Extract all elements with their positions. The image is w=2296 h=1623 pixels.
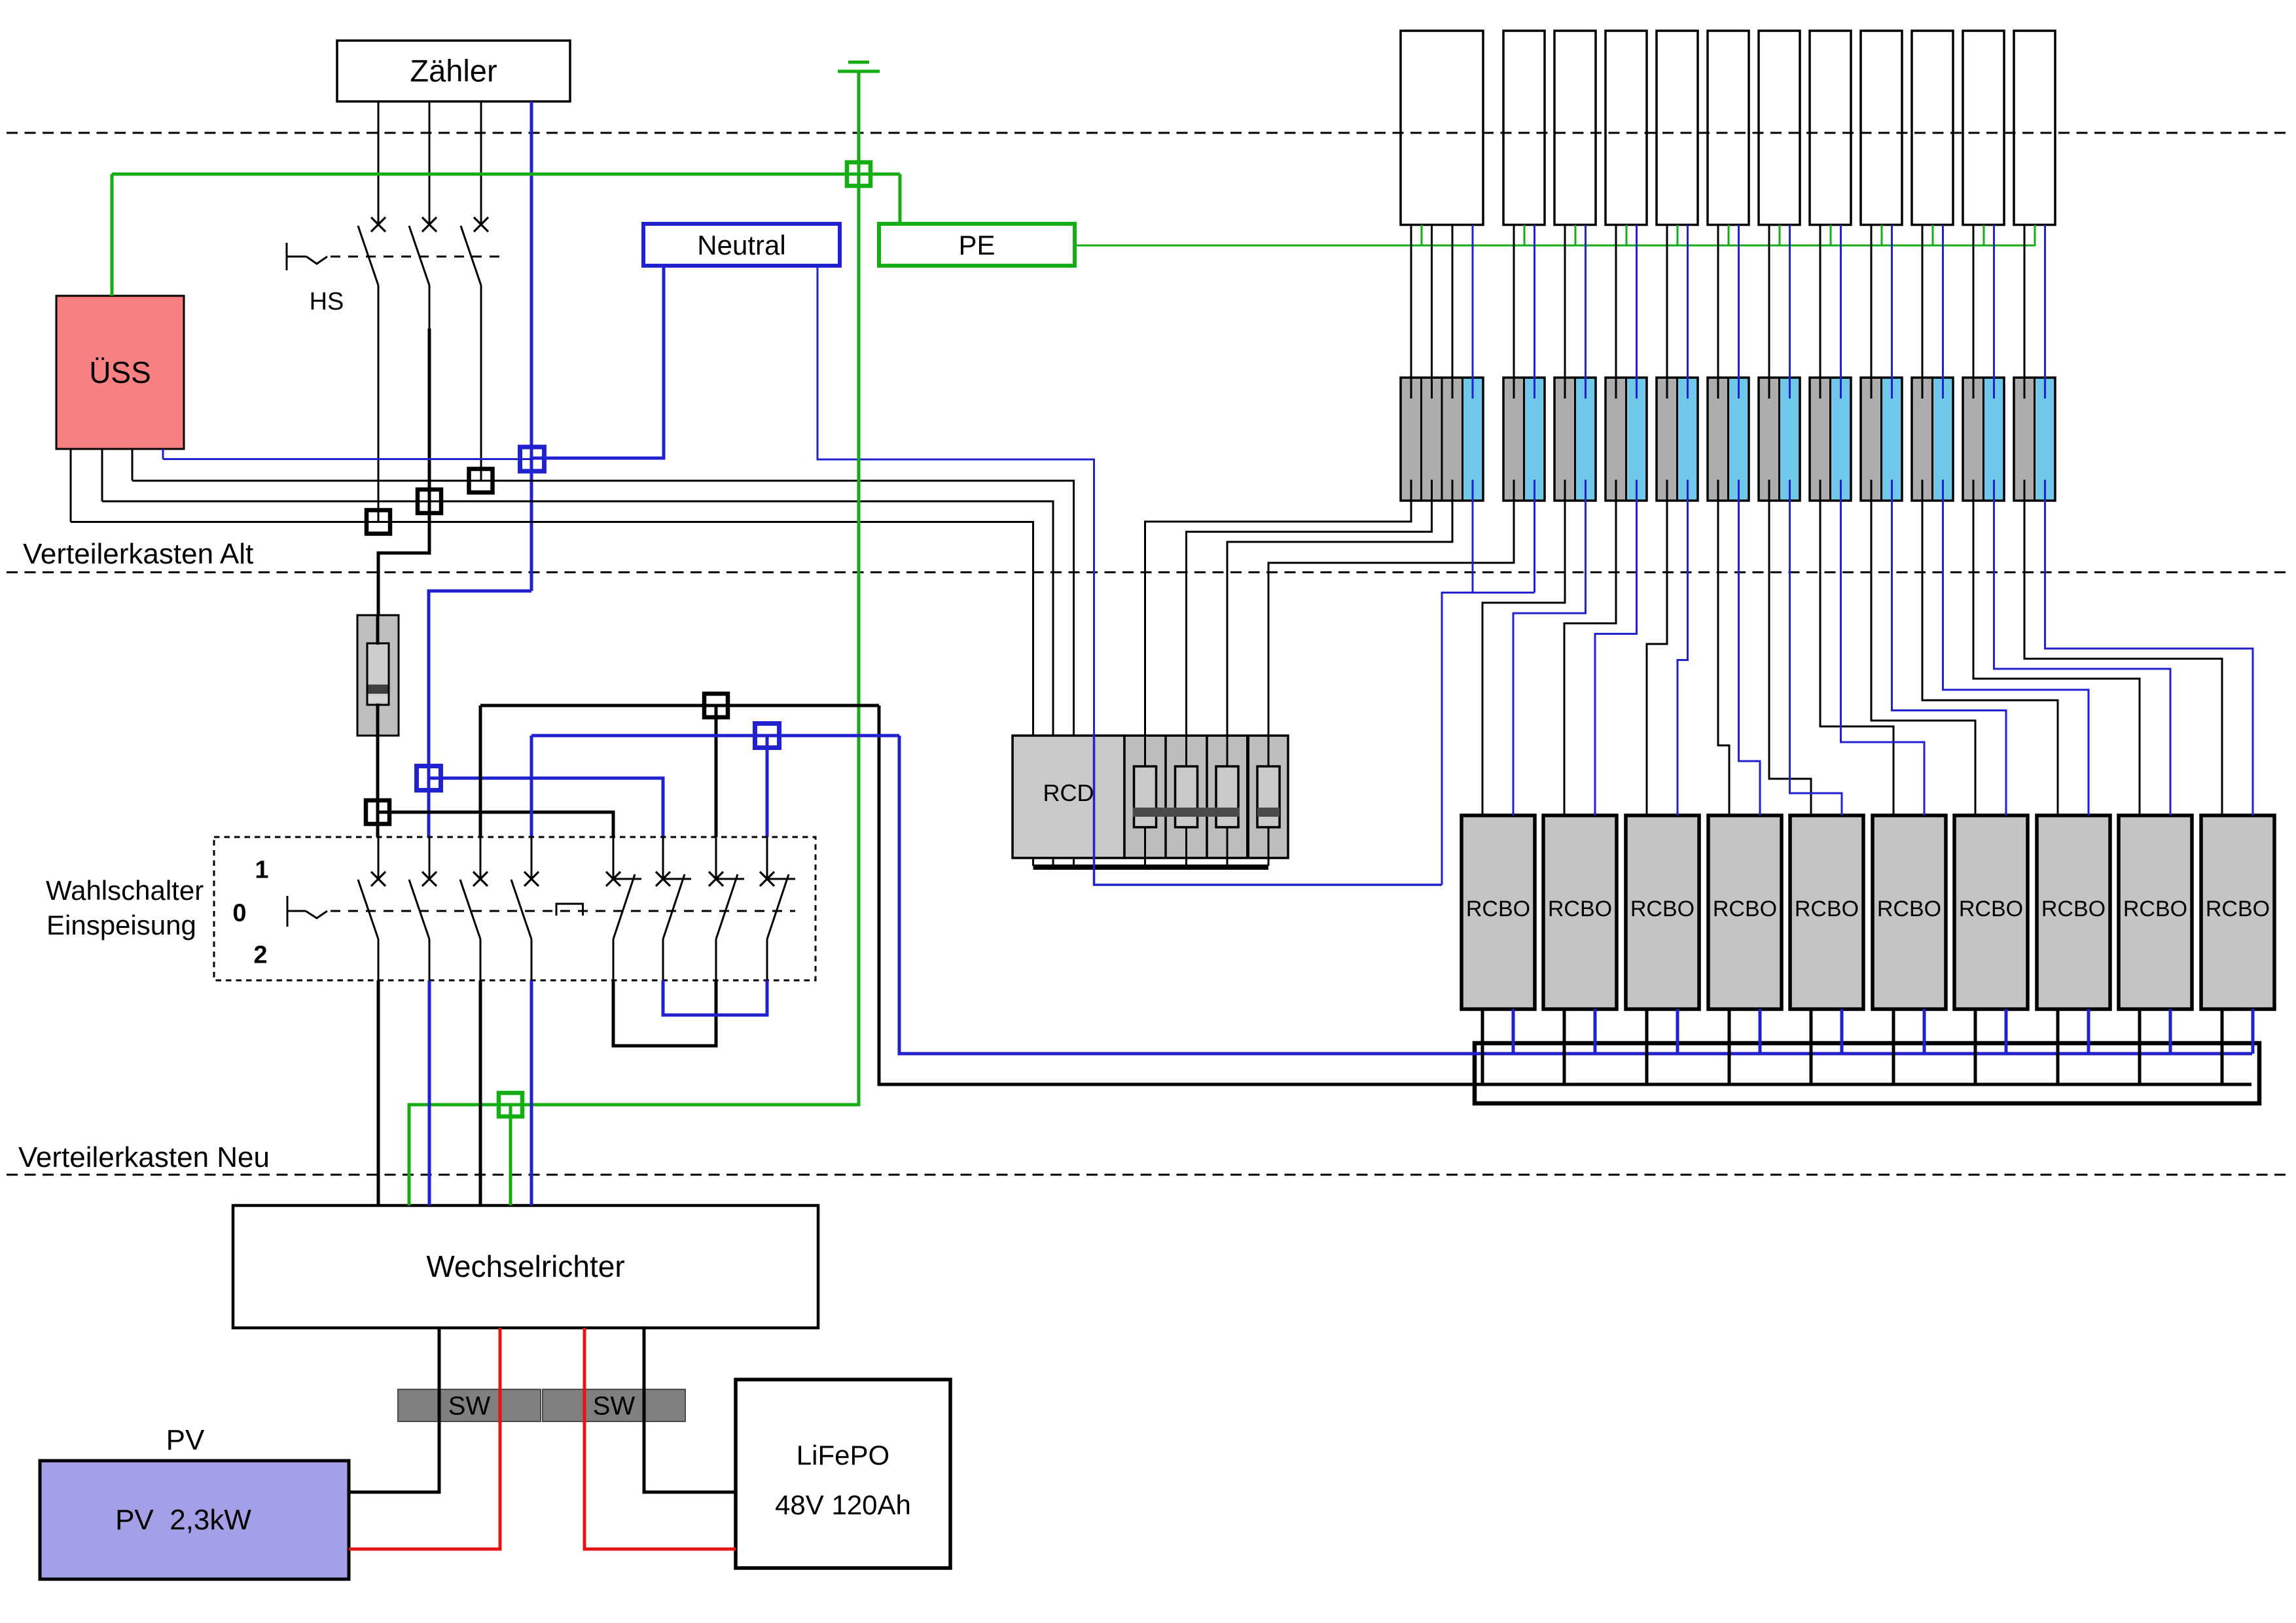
circuit1 L pins upper [1411, 225, 1452, 399]
boundary dashed line Verteilerkasten Alt [7, 571, 2289, 573]
svg-text:Wechselrichter: Wechselrichter [426, 1249, 624, 1283]
boundary dashed line Verteilerkasten Neu [7, 1174, 2289, 1176]
RCD bottom terminal bar [1033, 865, 1269, 870]
wire module9 L to RCBO7 [1871, 480, 1975, 815]
svg-text:Verteilerkasten Alt: Verteilerkasten Alt [23, 538, 253, 570]
wire PE branch to inverter [509, 1105, 512, 1205]
wire module4 N to RCBO2 [1595, 480, 1637, 815]
selector pole 4 [511, 837, 539, 980]
RCBO L pins to L bus [1482, 1009, 2222, 1086]
breaker module 2 [1503, 378, 1545, 501]
node PE inverter junction [499, 1093, 522, 1116]
wire ÜSS neutral link [163, 458, 532, 460]
svg-text:1: 1 [255, 857, 268, 884]
svg-text:0: 0 [232, 900, 246, 927]
node L branch to pole 5 junction [366, 800, 389, 824]
circuit1 PE stub [1421, 225, 1423, 246]
switch SW1 box [398, 1389, 541, 1421]
PV array box [40, 1461, 349, 1579]
svg-text:2: 2 [253, 942, 267, 969]
selector mechanical link dashed [331, 910, 795, 912]
breaker module 11 [1963, 378, 2004, 501]
wire selector pole1 to inverter [377, 980, 380, 1205]
wire L house bus drop to pole 7 [715, 705, 718, 837]
terminal strip frame around N and L buses [1475, 1043, 2259, 1103]
wire PE bus to circuits [1075, 245, 2036, 247]
svg-text:RCBO: RCBO [1713, 897, 1777, 921]
wire ÜSS pin N drop [162, 449, 164, 459]
wire module1 L1 to RCD module1 [1145, 480, 1412, 736]
svg-text:RCBO: RCBO [1959, 897, 2023, 921]
svg-text:Wahlschalter: Wahlschalter [46, 875, 204, 906]
inverter box Wechselrichter [233, 1205, 818, 1328]
wire RCD N collector [1442, 593, 1535, 885]
node L bus to pole 7 junction [704, 694, 728, 717]
load cable box 10 [1912, 31, 1953, 225]
svg-text:RCBO: RCBO [1630, 897, 1695, 921]
node N junction at ÜSS link [520, 447, 545, 471]
RCBO 2 [1543, 815, 1617, 1009]
svg-text:48V 120Ah: 48V 120Ah [775, 1489, 911, 1520]
node L2-line B junction [418, 490, 441, 513]
svg-text:HS: HS [310, 288, 344, 315]
wire U-link poles 6-8 [663, 980, 767, 1015]
wire module12 N to RCBO10 [2045, 480, 2253, 815]
svg-text:SW: SW [593, 1392, 636, 1421]
wire module11 N to RCBO9 [1994, 480, 2171, 815]
load cable box 9 [1861, 31, 1902, 225]
wire neutral bar left pin [532, 266, 664, 458]
node N branch to pole 6 junction [417, 766, 441, 791]
svg-text:RCD: RCD [1043, 779, 1094, 806]
wire HS pole2 output bold to breaker [378, 329, 429, 615]
breaker module 10 [1912, 378, 1953, 501]
load cable box 7 [1759, 31, 1800, 225]
circuit PE stubs 2-12 [1524, 225, 2035, 246]
wire L house bus horizontal [480, 704, 879, 707]
main breaker F1 body [357, 615, 399, 736]
circuit pins upper 2-12 [1514, 225, 2024, 399]
wire module1 N drop [1472, 480, 1474, 593]
wire N house bus drop to pole 4 [530, 736, 533, 837]
svg-text:SW: SW [448, 1392, 491, 1421]
neutral bar box [643, 224, 840, 266]
wire module8 L to RCBO6 [1820, 480, 1893, 815]
selector pole 8 [760, 837, 795, 980]
circuit N pins upper 2-12 [1535, 225, 2045, 399]
wire ÜSS pin L1 drop [70, 449, 72, 522]
svg-text:RCBO: RCBO [2041, 897, 2106, 921]
wire L1 meter drop [378, 101, 380, 224]
breaker module 4 [1605, 378, 1647, 501]
wire breaker stub bottom [376, 704, 380, 736]
wire module1 L3 to RCD module3 [1227, 480, 1452, 736]
wire module12 L to RCBO10 [2024, 480, 2222, 815]
RCBO 4 [1708, 815, 1782, 1009]
selector pole 2 [409, 837, 437, 980]
wire phase line A to RCD [132, 481, 1074, 736]
wire N house bus down right [899, 736, 2252, 1054]
wire selector pole2 to inverter [428, 980, 431, 1205]
main switch HS pole 1 contact [358, 217, 386, 285]
svg-text:Zähler: Zähler [410, 54, 497, 88]
selector pole 6 [656, 837, 691, 980]
switch SW2 box [543, 1389, 685, 1421]
svg-text:ÜSS: ÜSS [89, 355, 151, 389]
wire PE long vertical to inverter [409, 174, 859, 1205]
wire HS pole2 output thin [429, 285, 431, 330]
breaker module 8 [1810, 378, 1851, 501]
breaker module 5 [1657, 378, 1698, 501]
wire L2 meter drop [429, 101, 431, 224]
wire module7 L to RCBO5 [1769, 480, 1811, 815]
node L1-line C junction [367, 510, 390, 534]
meter box Zähler [337, 41, 570, 101]
svg-text:RCBO: RCBO [1548, 897, 1612, 921]
RCBO 7 [1954, 815, 2028, 1009]
load cable box 5 [1657, 31, 1698, 225]
main switch HS actuator terminal [287, 243, 327, 270]
wire breaker stub top [376, 615, 380, 645]
wire module9 N to RCBO7 [1892, 480, 2007, 815]
wire module10 L to RCBO8 [1922, 480, 2058, 815]
selector pole 3 [460, 837, 488, 980]
wire N house bus horizontal [531, 734, 899, 738]
load cable box 11 [1963, 31, 2004, 225]
wire U-link poles 5-7 [613, 980, 716, 1046]
wire N meter drop (bold) [530, 101, 533, 591]
RCBO N pins to N bus [1513, 1009, 2253, 1054]
wire module2 N drop [1534, 480, 1535, 593]
load cable box 12 [2014, 31, 2055, 225]
RCBO 1 [1462, 815, 1535, 1009]
wire battery minus black [644, 1328, 736, 1492]
load cable box 1 [1401, 31, 1483, 225]
selector dashed box [214, 837, 816, 980]
RCBO 3 [1626, 815, 1699, 1009]
node N bus to pole 8 junction [755, 724, 780, 748]
PE bar box [879, 224, 1075, 266]
wire green service entry to ÜSS [111, 174, 114, 296]
selector mechanical link bridge [556, 904, 583, 916]
wire module4 L to RCBO2 [1564, 480, 1616, 815]
wire module11 L to RCBO9 [1973, 480, 2140, 815]
wire breaker output to selector pole 1 [376, 736, 380, 837]
selector actuator terminal [287, 896, 327, 927]
wire module6 L to RCBO4 [1718, 480, 1729, 815]
wire HS pole3 output to line A [480, 285, 482, 481]
selector pole 1 [358, 837, 386, 980]
svg-text:Einspeisung: Einspeisung [46, 910, 196, 940]
wire HS pole1 output to line C [378, 285, 380, 522]
wire module5 N to RCBO3 [1677, 480, 1688, 815]
battery LiFePO box [736, 1380, 950, 1568]
RCD neutral line through body [1093, 736, 1096, 858]
boundary dashed line top (grid side) [7, 132, 2289, 134]
wire RCD neutral output to circuits [1094, 858, 1443, 885]
wire ÜSS pin L2 drop [101, 449, 103, 501]
wire battery plus red [584, 1328, 736, 1549]
wire L house bus drop to pole 3 [479, 705, 482, 837]
wire N jog to selector [429, 591, 531, 778]
wire module3 N to RCBO1 [1513, 480, 1586, 815]
wire module5 L to RCBO3 [1647, 480, 1667, 815]
wire L3 meter drop [480, 101, 482, 224]
wire N feed selector pole 2 [427, 778, 431, 837]
svg-text:Verteilerkasten Neu: Verteilerkasten Neu [18, 1141, 270, 1173]
wire module1 L2 to RCD module2 [1187, 480, 1432, 736]
surge protector ÜSS [56, 296, 184, 449]
main switch HS pole 2 contact [409, 217, 437, 285]
breaker module 9 [1861, 378, 1902, 501]
RCBO 9 [2119, 815, 2192, 1009]
node PE top junction [847, 162, 870, 186]
svg-text:RCBO: RCBO [1877, 897, 1941, 921]
wire module8 N to RCBO6 [1841, 480, 1925, 815]
breaker module 12 [2014, 378, 2055, 501]
wire PE drop to PE bar [899, 174, 902, 224]
wire N branch to selector pole 6 [429, 778, 663, 837]
svg-text:LiFePO: LiFePO [797, 1440, 889, 1471]
wire module6 N to RCBO4 [1739, 480, 1761, 815]
node L3-line A junction [469, 469, 493, 493]
main switch HS pole 3 contact [461, 217, 488, 285]
breaker module 7 [1759, 378, 1800, 501]
wire phase line B to RCD [102, 501, 1053, 736]
selector pole 7 [709, 837, 744, 980]
svg-text:RCBO: RCBO [2123, 897, 2187, 921]
RCBO 8 [2037, 815, 2110, 1009]
main switch HS mechanical link dashed [331, 256, 504, 258]
load cable box 4 [1605, 31, 1647, 225]
wire ÜSS pin L3 drop [132, 449, 134, 481]
wire L house bus down right [879, 705, 2251, 1084]
svg-text:RCBO: RCBO [1795, 897, 1859, 921]
load cable box 8 [1810, 31, 1851, 225]
RCD module pin stubs bottom [1145, 827, 1269, 858]
wire N house bus drop to pole 8 [766, 736, 769, 837]
RCD body [1013, 736, 1288, 858]
circuit1 N pin upper [1472, 225, 1474, 399]
svg-text:Neutral: Neutral [697, 230, 785, 260]
wire L branch to selector pole 5 [378, 812, 613, 837]
wire PV minus red [349, 1328, 500, 1549]
wire phase line C to RCD [71, 522, 1033, 736]
wire selector pole3 to inverter [479, 980, 482, 1205]
RCBO 10 [2201, 815, 2274, 1009]
wire PV plus black [349, 1328, 439, 1492]
wire module3 L to RCBO1 [1482, 480, 1565, 815]
RCBO 6 [1873, 815, 1946, 1009]
load cable box 3 [1554, 31, 1596, 225]
wire module7 N to RCBO5 [1790, 480, 1842, 815]
breaker module 1 (3P+N) [1401, 378, 1483, 501]
wire selector pole4 to inverter [530, 980, 533, 1205]
svg-text:RCBO: RCBO [2206, 897, 2270, 921]
wire module10 N to RCBO8 [1943, 480, 2089, 815]
svg-text:PV: PV [166, 1424, 205, 1456]
breaker module 6 [1708, 378, 1749, 501]
RCD module pin stubs top [1145, 736, 1269, 766]
wire PE main horizontal [112, 173, 900, 176]
svg-text:RCBO: RCBO [1466, 897, 1530, 921]
wire module2 L to RCD module4 [1268, 480, 1514, 736]
RCD bottom pins [1033, 858, 1269, 866]
ground symbol [838, 62, 880, 174]
load cable box 2 [1503, 31, 1545, 225]
wire neutral bar right pin to RCD [817, 266, 1094, 736]
svg-text:PV 2,3kW: PV 2,3kW [115, 1504, 251, 1536]
selector pole 5 [606, 837, 641, 980]
breaker module 3 [1554, 378, 1596, 501]
load cable box 6 [1708, 31, 1749, 225]
RCBO 5 [1790, 815, 1863, 1009]
svg-text:PE: PE [958, 230, 995, 260]
